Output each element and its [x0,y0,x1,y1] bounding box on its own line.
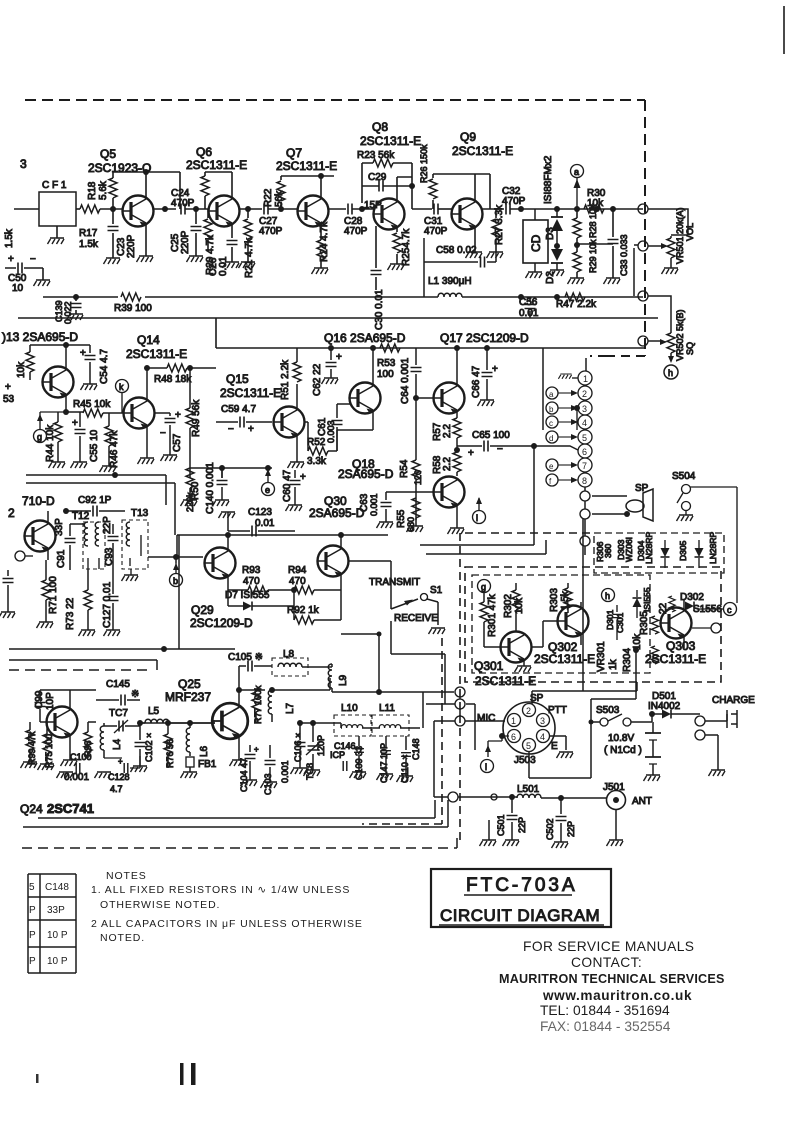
svg-text:C102 ×: C102 × [144,733,154,762]
svg-text:D302: D302 [680,592,704,603]
wire [365,561,418,609]
wire [608,714,622,721]
svg-text:FOR SERVICE MANUALS: FOR SERVICE MANUALS [523,939,694,954]
wire [130,569,132,575]
wire R17 to Q5 base [100,208,123,210]
wire [293,606,295,620]
resistor R29 10k [573,252,581,272]
wire [534,209,536,272]
capacitor C30 0.01 [375,226,377,290]
dashed PA box top [9,669,152,671]
resistor R76 56 [164,734,172,754]
svg-text:1.5k: 1.5k [79,239,99,250]
wire [320,260,322,268]
wire R28 node to C33 [577,243,613,245]
wire [147,367,216,369]
capacitor C502 22P [560,798,562,842]
svg-text:+: + [5,382,11,393]
ground [312,268,329,274]
wire [556,263,558,270]
capacitor C501 22P [511,797,513,840]
node e [262,483,275,496]
junction [269,687,275,693]
wire [104,756,140,768]
svg-text:b: b [173,576,178,586]
junction [173,554,179,560]
ground [558,374,571,379]
wire CF1 to R17 [76,208,80,210]
svg-text:2SA695-D: 2SA695-D [309,506,365,520]
node b [170,574,183,587]
svg-text:R26 150k: R26 150k [419,144,429,183]
wire [488,736,509,757]
resistor R20 4.7k [207,209,209,250]
junction [161,646,167,652]
filter CF1 [39,192,76,226]
wire Q7 collector rail [281,176,334,199]
ground C26 [223,262,240,268]
svg-text:470: 470 [243,576,260,587]
wire [416,492,457,528]
svg-text:R28 10k: R28 10k [588,204,598,238]
ground [37,622,54,628]
ground [0,612,15,618]
svg-text:470P: 470P [259,226,283,237]
resistor R28 10k [576,209,578,218]
svg-text:470: 470 [289,576,306,587]
svg-text:+: + [175,410,181,421]
wire [717,742,719,770]
ground at pin1 [572,377,578,379]
svg-text:120: 120 [413,470,423,485]
ground [377,522,394,528]
svg-text:+: + [80,348,86,359]
resistor R26 150k [432,174,434,209]
capacitor C104 47 [249,745,251,780]
wire [66,412,123,413]
svg-text:R301 47k: R301 47k [487,593,498,637]
wire [255,690,257,722]
svg-text:TRANSMIT: TRANSMIT [369,577,420,588]
capacitor left edge [7,570,9,612]
svg-text:R48 18k: R48 18k [154,374,192,385]
ground [503,840,520,846]
resistor R25 4.7k [396,226,398,264]
svg-text:2.2: 2.2 [442,457,453,471]
ground C23 [104,258,121,264]
title box FTC-703A CIRCUIT DIAGRAM [431,869,611,927]
wire [29,345,31,380]
svg-text:D301: D301 [605,609,615,630]
wire Q7 out / C28 [328,208,346,210]
svg-text:R18: R18 [87,181,98,200]
inductor L6 [186,728,190,752]
ground [138,458,155,464]
svg-text:0.001: 0.001 [369,493,379,516]
open circle row2 [638,241,648,251]
svg-text:1: 1 [583,374,588,384]
svg-text:C33 0.033: C33 0.033 [619,234,629,276]
svg-text:e: e [549,462,554,471]
svg-text:+: + [492,364,498,375]
svg-text:a: a [549,390,554,399]
wire [189,767,191,772]
junction [112,472,118,478]
wire [464,894,572,896]
svg-text:D7 ISI555: D7 ISI555 [225,590,270,601]
wire [692,627,711,629]
svg-text:5: 5 [582,433,587,443]
wire [643,489,653,521]
wire [75,297,77,314]
wire [40,690,96,760]
svg-text:R47 2.2k: R47 2.2k [556,299,597,310]
wire [645,733,661,757]
capacitor C23 220P [112,209,114,258]
wire [302,664,332,667]
junction [574,405,580,411]
ground [48,238,65,244]
wire [670,353,672,359]
svg-text:Q303: Q303 [666,639,696,653]
junction [558,795,564,801]
dashed boundary [590,355,607,357]
svg-text:h: h [668,368,673,378]
wire [400,727,420,729]
wire [652,714,700,722]
wire [427,599,438,625]
junction [509,794,515,800]
junction [187,365,193,371]
junction [63,342,69,348]
ground [568,278,585,284]
junction [413,395,419,401]
VR502 wiring [648,296,671,333]
svg-text:Q15: Q15 [226,372,249,386]
junction [594,206,600,212]
svg-text:Q6: Q6 [196,145,212,159]
bus y=318 [18,317,658,319]
capacitor C102 X [139,723,141,766]
ground [429,628,446,634]
svg-text:C104 47: C104 47 [239,758,249,792]
svg-text:10: 10 [12,283,24,294]
ground [161,455,178,461]
junction [338,532,344,538]
CD detector box [523,220,548,263]
junction [376,689,382,695]
capacitor C25 220P [195,209,197,256]
dashed verticals right [459,533,461,845]
capacitor C61 0.003 [336,404,338,451]
resistor R301 47k [480,602,488,622]
svg-text:3.3k: 3.3k [307,456,327,467]
svg-text:3: 3 [582,404,587,414]
junction [143,169,149,175]
resistor R24 4.7k [317,240,325,260]
svg-text:8: 8 [582,476,587,486]
svg-text:33P: 33P [47,905,65,916]
svg-text:R23 56k: R23 56k [357,150,395,161]
svg-text:220k: 220k [185,492,195,512]
wire [190,468,272,478]
junction [454,447,460,453]
connector J pins 1-8 [578,371,592,487]
transistor Q5 [123,196,154,227]
wire [584,487,586,555]
capacitor C66 47 [486,348,488,400]
junction [63,508,69,514]
wire [551,262,563,264]
wire [636,590,638,618]
resistor R22 56k [280,176,282,209]
node g [34,430,47,443]
svg-text:3: 3 [540,716,545,726]
svg-text:470P: 470P [502,196,526,207]
node c2 [724,603,737,616]
svg-text:T13: T13 [131,508,149,519]
resistor R50 220k [186,468,194,488]
junction [144,365,150,371]
svg-text:R24 4.7k: R24 4.7k [319,221,330,262]
capacitor C140 0.001 [221,468,223,500]
resistor R55 680 [412,498,420,518]
svg-text:C64 0.001: C64 0.001 [400,357,411,404]
svg-text:6: 6 [582,447,587,457]
svg-text:d: d [549,434,553,443]
transistor Q24 [47,707,78,738]
wire into CF1 [14,208,39,210]
junction [278,206,284,212]
diode D2 [551,249,563,261]
junction [649,711,655,717]
wire [434,721,455,797]
svg-text:T12: T12 [72,511,90,522]
ground [137,256,154,262]
svg-text:a: a [574,167,579,177]
node g2 [478,580,491,593]
svg-text:C123: C123 [248,507,272,518]
svg-text:i: i [476,513,478,523]
svg-text:R75 100: R75 100 [44,734,54,768]
svg-text:C502: C502 [545,818,555,840]
wire [47,511,49,560]
svg-text:L6: L6 [199,745,210,757]
wire [652,722,654,775]
svg-text:L4: L4 [112,738,123,750]
ground [71,462,88,468]
svg-text:R93: R93 [242,565,261,576]
svg-text:2SC1209-D: 2SC1209-D [190,616,253,630]
svg-text:C127 0.01: C127 0.01 [102,581,113,628]
junction [165,720,171,726]
transistor Q25 MRF237 [212,703,248,739]
wire [341,723,380,728]
svg-text:C59 4.7: C59 4.7 [221,404,256,415]
ground [526,272,543,278]
wire [103,723,105,758]
wire [112,524,114,560]
junction [610,206,616,212]
node i2 [481,760,494,773]
dashed bus [22,835,457,848]
capacitor C57 electrolytic [169,413,171,455]
svg-text:220P: 220P [126,234,137,258]
wires right of L11 [423,692,445,728]
svg-text:C58 0.02: C58 0.02 [436,245,477,256]
resistor R73 22 [84,590,92,610]
junction [574,206,580,212]
svg-text:VR301: VR301 [596,641,607,672]
svg-text:1k: 1k [608,658,619,670]
resistor R46 47k [105,426,113,446]
wire [592,496,627,514]
svg-text:2SC1923-O: 2SC1923-O [88,161,151,175]
wire [698,540,700,568]
svg-text:6: 6 [511,732,516,742]
junction [531,443,537,449]
svg-text:2: 2 [526,706,531,716]
wire [96,699,140,701]
contact block [499,939,725,1034]
svg-text:i: i [485,762,487,772]
resistor R17 [80,205,100,213]
wire [114,720,128,733]
ground [397,776,414,782]
svg-text:0.001: 0.001 [280,760,290,783]
svg-text:NOTES: NOTES [106,870,147,882]
dashed box inner Q301-Q302 [472,575,650,673]
wire [189,723,191,756]
svg-text:−: − [160,428,166,439]
svg-text:22P: 22P [102,516,113,534]
svg-text:56k: 56k [274,190,285,207]
ground [388,264,405,270]
VR501 wiring [648,209,688,235]
svg-text:+: + [254,745,259,754]
svg-text:L1 390μH: L1 390μH [428,276,472,287]
wire [576,178,578,209]
svg-text:S503: S503 [596,705,620,716]
junction [63,409,69,415]
svg-text:R76 56: R76 56 [165,739,175,768]
svg-text:C60 47: C60 47 [282,469,293,502]
svg-text:Q17 2SC1209-D: Q17 2SC1209-D [440,331,529,345]
wire [332,688,454,692]
resistor R49 56k [186,408,194,428]
wire [727,710,737,728]
junction [574,242,580,248]
ground [213,500,230,506]
connector letter nodes a-f [546,387,558,486]
svg-text:R21 4.7k: R21 4.7k [244,237,255,278]
wire [439,924,604,926]
transistor Q301 [501,632,532,663]
wire [362,185,412,187]
resistor R77 100k [252,692,260,712]
open circle row4 [638,336,648,346]
svg-text:C91: C91 [56,549,67,568]
diode D3 [551,219,563,231]
svg-text:PTT: PTT [548,705,567,716]
resistor R303 15k [564,588,572,608]
svg-text:R45 10k: R45 10k [73,399,111,410]
svg-text:L5: L5 [148,706,160,717]
wire [130,522,141,566]
ground [350,772,367,778]
svg-text:360: 360 [603,544,613,558]
ground [487,252,504,258]
svg-text:3: 3 [20,157,27,171]
junction [110,206,116,212]
junction [518,206,524,212]
svg-text:ANT: ANT [632,796,652,807]
svg-text:h: h [605,591,610,601]
svg-text:R303: R303 [549,588,560,612]
wire [175,563,177,573]
wire Q5 emitter to ground [145,223,147,256]
wire [228,522,295,531]
junction [359,206,365,212]
wire [424,238,496,262]
dashed box LED indicator [594,533,724,573]
wire [212,690,265,755]
junction [377,632,382,637]
ground [304,770,321,776]
wire [616,605,618,640]
capacitor C127 0.01 [112,560,114,630]
svg-text:MRF237: MRF237 [165,690,211,704]
wire b node [148,557,203,563]
resistor R54 120 [412,460,420,480]
resistor R51 2.2k [293,362,301,382]
wire [66,510,125,512]
wire receive to node row [391,621,455,704]
transistor Q8 [374,199,405,230]
transistor Q302 [558,606,589,637]
ferrite bead FB1 [186,757,194,767]
svg-text:100: 100 [377,369,394,380]
svg-text:C106 ×: C106 × [293,733,303,762]
wire [25,555,33,557]
svg-text:C54 4.7: C54 4.7 [99,349,110,384]
wire Q29 rail down to node [341,634,379,692]
wire Q9 emitter ground [474,226,476,252]
svg-text:L9: L9 [338,674,349,686]
resistor R98 [84,732,92,752]
wire [300,722,341,724]
svg-text:5: 5 [29,882,35,893]
dashed boundary right vertical [644,100,646,356]
svg-text:FTC-703A: FTC-703A [466,875,578,896]
svg-text:LN28RP: LN28RP [644,532,654,564]
svg-text:OTHERWISE NOTED.: OTHERWISE NOTED. [100,899,220,911]
junction [633,647,639,653]
svg-text:R92 1k: R92 1k [287,605,320,616]
svg-text:10 P: 10 P [47,930,68,941]
svg-text:+: + [300,472,306,483]
junction [219,465,225,471]
junction [193,206,199,212]
ground [181,500,198,506]
wire [227,535,229,590]
wire [671,235,688,268]
ground [38,764,55,770]
wire [457,445,534,447]
ground [480,840,497,846]
resistor Q6 top (R19) [201,176,209,196]
ground [607,840,624,846]
